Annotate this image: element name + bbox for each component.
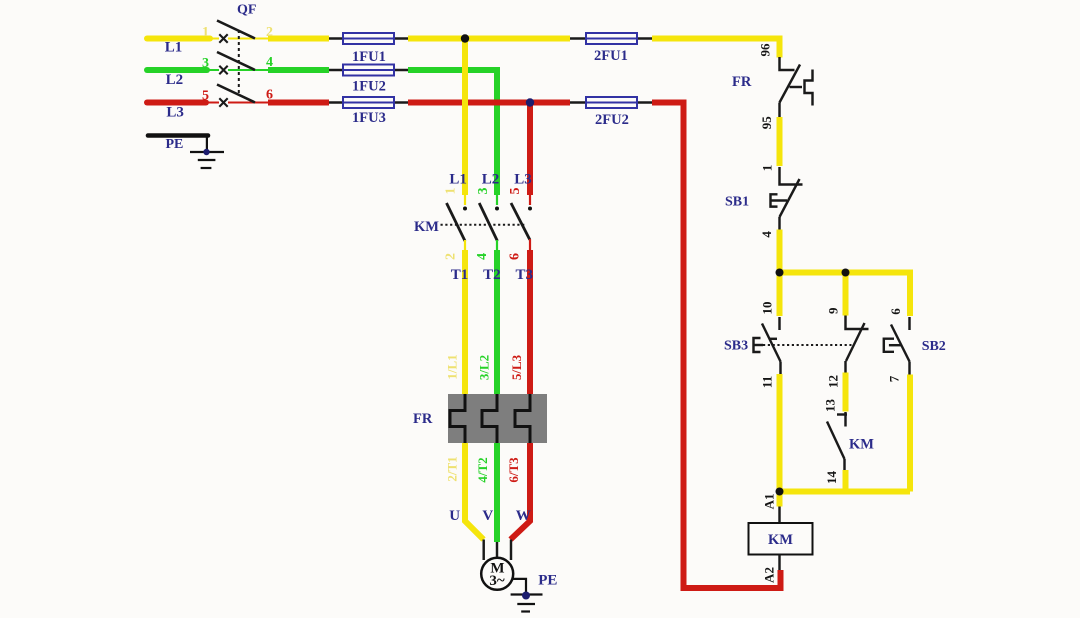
svg-text:L2: L2 (166, 72, 184, 88)
svg-text:3/L2: 3/L2 (476, 355, 491, 380)
svg-text:4/T2: 4/T2 (475, 457, 490, 482)
svg-text:1/L1: 1/L1 (445, 354, 460, 379)
svg-text:3~: 3~ (489, 573, 505, 589)
svg-text:KM: KM (768, 532, 793, 548)
svg-text:SB2: SB2 (922, 339, 946, 354)
svg-text:FR: FR (413, 411, 433, 427)
svg-text:L3: L3 (166, 104, 184, 120)
svg-text:7: 7 (886, 375, 901, 382)
svg-text:14: 14 (824, 471, 839, 485)
svg-text:PE: PE (538, 573, 557, 589)
svg-text:4: 4 (475, 253, 490, 260)
svg-text:9: 9 (826, 307, 841, 314)
svg-text:13: 13 (823, 399, 838, 413)
svg-text:95: 95 (759, 116, 774, 130)
svg-text:2FU1: 2FU1 (594, 48, 628, 64)
svg-text:6: 6 (266, 88, 273, 103)
svg-text:L1: L1 (165, 40, 183, 56)
svg-text:4: 4 (759, 231, 774, 238)
svg-text:U: U (449, 508, 460, 524)
svg-text:FR: FR (732, 74, 752, 90)
svg-text:2FU2: 2FU2 (595, 112, 629, 128)
svg-text:1: 1 (760, 165, 775, 172)
svg-text:6: 6 (508, 253, 523, 260)
svg-text:V: V (482, 508, 493, 524)
svg-text:KM: KM (849, 437, 874, 453)
svg-text:SB1: SB1 (725, 194, 749, 209)
svg-text:PE: PE (166, 137, 184, 152)
svg-text:L3: L3 (514, 171, 532, 187)
svg-text:2: 2 (444, 253, 459, 260)
svg-text:L2: L2 (482, 171, 500, 187)
svg-text:A1: A1 (762, 493, 777, 509)
svg-text:96: 96 (758, 43, 773, 57)
svg-text:4: 4 (266, 55, 273, 70)
svg-text:5/L3: 5/L3 (509, 354, 524, 380)
svg-text:KM: KM (414, 219, 439, 235)
svg-text:1: 1 (202, 25, 209, 40)
svg-text:A2: A2 (762, 567, 777, 583)
svg-text:W: W (516, 508, 531, 524)
svg-text:6: 6 (888, 308, 903, 315)
svg-text:QF: QF (237, 3, 256, 18)
svg-text:1FU1: 1FU1 (352, 49, 386, 65)
svg-text:T2: T2 (483, 267, 501, 283)
svg-text:3: 3 (202, 56, 209, 71)
svg-text:6/T3: 6/T3 (506, 457, 521, 483)
svg-text:3: 3 (476, 188, 491, 195)
svg-text:SB3: SB3 (724, 338, 748, 353)
svg-text:12: 12 (826, 375, 841, 388)
svg-text:1FU2: 1FU2 (352, 79, 386, 95)
svg-text:1FU3: 1FU3 (352, 110, 386, 126)
svg-text:2/T1: 2/T1 (445, 456, 460, 481)
svg-text:T3: T3 (516, 267, 534, 283)
svg-text:1: 1 (444, 188, 459, 195)
svg-text:L1: L1 (449, 171, 467, 187)
svg-text:2: 2 (266, 25, 273, 40)
svg-text:5: 5 (508, 188, 523, 195)
svg-text:11: 11 (760, 376, 775, 388)
svg-text:10: 10 (760, 302, 775, 315)
svg-text:5: 5 (202, 88, 209, 103)
svg-text:T1: T1 (451, 267, 469, 283)
